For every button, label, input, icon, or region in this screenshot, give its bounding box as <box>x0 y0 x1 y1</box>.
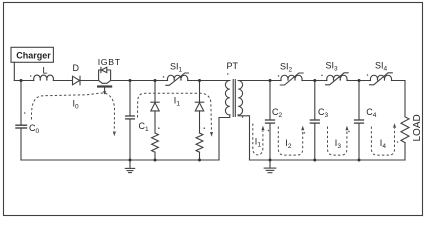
loop I0 <box>31 93 114 131</box>
wire charger lead <box>13 62 15 80</box>
loop I1 primary <box>138 93 212 131</box>
wire IGBT to PT primary top <box>111 80 168 82</box>
svg-text:D: D <box>73 63 80 73</box>
dashed current loops <box>31 93 394 155</box>
resistor R2 <box>196 133 203 152</box>
node C3 top <box>313 79 316 82</box>
polarity star marks <box>24 73 398 143</box>
saturable inductor SI4 <box>370 73 393 85</box>
wire SI1 to PT <box>188 80 230 82</box>
loop I2 <box>278 127 302 156</box>
svg-text:LOAD: LOAD <box>412 114 423 141</box>
node C2 top <box>269 79 272 82</box>
wire diode to resistor <box>154 111 156 133</box>
capacitor C2 <box>266 120 275 123</box>
IGBT Q1 with antiparallel diode <box>97 67 112 94</box>
wire SI4 to load <box>392 81 406 117</box>
ground primary <box>125 160 134 173</box>
node C4 top <box>358 79 361 82</box>
node charger/L junction <box>20 79 23 82</box>
diode D3 <box>195 102 203 111</box>
wire diode to resistor <box>199 111 201 133</box>
node branch B bottom <box>198 159 201 162</box>
node branch A bottom <box>154 159 157 162</box>
node branch A top <box>154 79 157 82</box>
saturable inductor SI1 <box>166 73 189 85</box>
transformer PT secondary winding <box>238 81 242 116</box>
svg-text:PT: PT <box>227 61 239 71</box>
wire C1 branch <box>129 81 131 117</box>
capacitor C0 <box>16 125 27 128</box>
wire SI2 to C3 <box>302 80 327 82</box>
transformer PT core <box>233 80 235 117</box>
wire secondary top rail <box>238 80 281 82</box>
loop I3 <box>328 127 347 156</box>
wire top left rail <box>14 80 33 82</box>
wire PT secondary bottom lead <box>238 115 249 160</box>
wire D to IGBT <box>80 80 99 82</box>
svg-text:IGBT: IGBT <box>98 57 121 67</box>
wire C3 branch <box>314 81 316 121</box>
wire resistor to rail <box>199 152 201 160</box>
wire C0 branch top <box>20 81 22 126</box>
saturable inductor SI2 <box>280 73 303 85</box>
loop I4 <box>371 127 394 156</box>
node C2 bottom / ground <box>269 159 272 162</box>
wire C4 bottom <box>358 123 360 160</box>
wire load to rail <box>404 143 406 160</box>
transformer PT primary winding <box>225 81 229 116</box>
wire branch B top <box>199 81 201 103</box>
charger box U0 <box>11 47 53 62</box>
wire PT primary bottom lead <box>219 115 230 160</box>
arrow I3 up <box>345 126 348 131</box>
svg-text:L: L <box>43 66 48 76</box>
wire SI3 to C4 <box>347 80 371 82</box>
ground secondary <box>264 160 276 173</box>
wire secondary bottom rail <box>250 159 406 161</box>
arrow I0 down <box>113 132 116 137</box>
arrow I2 up <box>301 126 304 131</box>
capacitor C4 <box>355 120 364 123</box>
wire C4 branch <box>358 81 360 121</box>
wire C1 bottom <box>129 119 131 160</box>
wire C2 bottom <box>269 123 271 160</box>
diode D <box>73 76 81 85</box>
resistor R1 <box>152 133 159 152</box>
arrow I1 primary down <box>210 132 213 137</box>
capacitor C1 <box>126 116 135 119</box>
wire C0 to bottom rail <box>20 128 22 160</box>
wire C2 branch <box>269 81 271 121</box>
arrow I4 up <box>393 123 396 128</box>
loop arrowheads <box>113 123 396 137</box>
loop I1 secondary <box>253 124 263 155</box>
wire C3 bottom <box>314 123 316 160</box>
node C4 bottom <box>358 159 361 162</box>
capacitor C3 <box>310 120 319 123</box>
wire primary bottom rail <box>21 159 219 161</box>
node C3 bottom <box>313 159 316 162</box>
arrow I1 secondary up <box>261 126 264 131</box>
wire L to D <box>53 80 72 82</box>
svg-text:Charger: Charger <box>16 51 51 61</box>
wire branch A top <box>154 81 156 103</box>
node branch B top <box>198 79 201 82</box>
wire resistor to rail <box>154 152 156 160</box>
node C1 bottom / ground <box>129 159 132 162</box>
saturable inductor SI3 <box>326 73 349 85</box>
node C1 top <box>129 79 132 82</box>
inductor L <box>34 75 54 80</box>
resistor LOAD <box>401 117 409 143</box>
diode D2 <box>151 102 159 111</box>
